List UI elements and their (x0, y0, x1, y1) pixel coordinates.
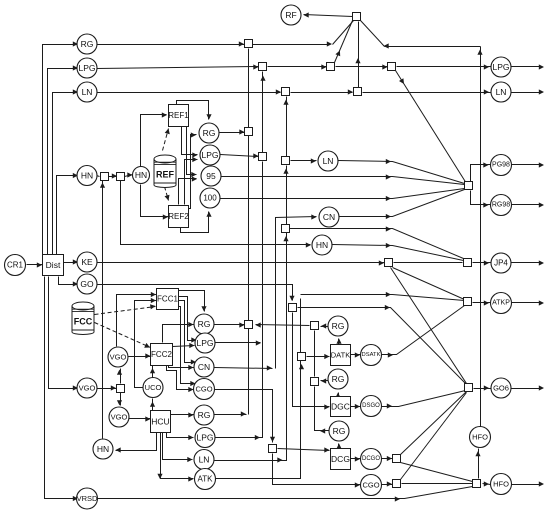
arrowhead FCC CN into collector (267, 365, 272, 370)
svg-text:ATKP: ATKP (492, 300, 510, 307)
junction reformer RG (245, 128, 253, 136)
svg-text:CN: CN (198, 362, 210, 372)
svg-text:LPG: LPG (201, 150, 218, 160)
arrowhead GO into GO junction (289, 296, 294, 301)
unit REF1 reformer mode 1 (168, 105, 189, 127)
wire FCC1 to FCC CGO (179, 307, 196, 384)
wire HN junction B to kero HN (121, 181, 311, 245)
wire DSATK to ATK blender (381, 306, 465, 355)
wire DATK RG to RG return junction (321, 326, 329, 328)
arrowhead into LPG junction 1 (253, 64, 258, 69)
node CN FCC naphtha (194, 357, 214, 377)
arrowhead into HCU LN (187, 457, 192, 462)
wire Dist to LN crude line (53, 93, 79, 255)
wire LN collector top segment (286, 97, 288, 157)
arrowhead DCG RG (336, 444, 341, 449)
svg-text:Dist: Dist (46, 260, 61, 270)
wire GO6 outlet (511, 388, 543, 390)
wire LPG collector upper vertical (262, 72, 264, 153)
node LN HCU (194, 450, 214, 470)
node LN light naphtha (77, 82, 97, 102)
svg-text:PG98: PG98 (492, 162, 510, 169)
arrowhead into LPG junction 3 (382, 64, 387, 69)
arrowhead into reformer RG junction (239, 129, 244, 134)
arrowhead DGC RG (335, 393, 340, 398)
svg-text:REF: REF (156, 170, 175, 180)
arrowhead into Dist (37, 262, 42, 267)
arrowhead into HN junction B (112, 173, 117, 178)
wire FCC2 to FCC RG left (163, 325, 194, 343)
arrowhead REF2 RG (191, 132, 196, 137)
svg-text:LN: LN (323, 156, 334, 166)
arrowhead REF2 LPG (192, 157, 197, 162)
svg-text:DCGO: DCGO (362, 456, 380, 462)
wire Dist to KE line (63, 262, 79, 264)
svg-text:LPG: LPG (78, 63, 95, 73)
wire RG1 to RG junction (97, 44, 245, 46)
svg-text:VGO: VGO (79, 384, 96, 393)
node RG HCU gas (194, 405, 214, 425)
wire HN junction B to reformer HN (125, 175, 133, 177)
wire Dist to LPG crude line (48, 69, 79, 255)
unit REF2 reformer mode 2 (168, 206, 189, 228)
svg-text:RG: RG (332, 321, 345, 331)
svg-text:HFO: HFO (472, 433, 488, 442)
svg-text:GO6: GO6 (493, 384, 509, 393)
arrowhead FCC1 LPG (191, 337, 196, 342)
wire LPG junction3 to LPG product (397, 66, 491, 68)
node DCGO desulfurized cycle oil (361, 449, 382, 470)
arrowhead on DSGO line (387, 403, 392, 408)
arrowhead into ATKP (484, 300, 489, 305)
arrowhead DATK RG (336, 339, 341, 344)
wire blender to RG98 (471, 191, 491, 205)
arrowhead REF2 95 (192, 176, 197, 181)
node PG98 premium gasoline (491, 155, 512, 176)
wire dashed FCC to FCC1 (95, 307, 156, 315)
arrowhead into GO (73, 281, 78, 286)
wire DCG to RG offgas (338, 444, 340, 449)
svg-text:HN: HN (81, 171, 93, 181)
junction LPG line 1 (259, 63, 267, 71)
wire Dist to RG crude line (43, 45, 79, 255)
junction JP4 blender (464, 259, 472, 267)
arrowhead into JP4 (484, 260, 489, 265)
junction LPG line 3 (388, 63, 396, 71)
wire reformer LPG to collector junction (221, 155, 259, 157)
wire DATK junction to DATK (307, 356, 330, 358)
junction FCC RG (245, 321, 253, 329)
node 100 reformate (200, 188, 220, 208)
arrowhead GO6 outlet (539, 385, 544, 390)
junction HN B (117, 173, 125, 181)
arrowhead FCC2 RG (188, 322, 193, 327)
node KE kerosene (77, 252, 97, 272)
wire LPG1 to LPG junction 1 (97, 67, 259, 69)
arrowhead RG98 outlet (539, 202, 544, 207)
wire DCGO junction to HFO junction (401, 463, 473, 482)
node LPG product (491, 57, 511, 77)
wire Dist to VGO line (49, 277, 79, 389)
svg-text:RG: RG (203, 128, 216, 138)
svg-text:DGC: DGC (331, 402, 350, 412)
arrowhead LPG collector into LPG junction 1 (260, 76, 265, 81)
arrowhead into KE (73, 259, 78, 264)
node LPG reformer (200, 145, 220, 165)
node VGO vacuum gas oil (77, 378, 97, 398)
wire JP4 junction to JP4 product (473, 262, 491, 264)
arrowhead HCU LPG into collector (255, 435, 260, 440)
arrowhead on LPG blend diagonal (399, 78, 404, 84)
wire HN junction A to B (109, 176, 117, 178)
arrowhead on 95 blend line (386, 174, 391, 179)
wire HCU RG to collector (215, 414, 247, 416)
arrowhead into VGO junction (111, 385, 116, 390)
svg-text:DSGO: DSGO (362, 403, 380, 409)
arrowhead into HN1 (73, 173, 78, 178)
wire 95 to gasoline blender (221, 177, 465, 185)
node GO6 gas oil product (491, 378, 511, 398)
arrowhead into KE junction (379, 260, 384, 265)
arrowhead into FCC2 (145, 353, 150, 358)
arrowhead into HCU RG (188, 412, 193, 417)
arrowhead into LN junction 1 (276, 89, 281, 94)
svg-text:DSATK: DSATK (362, 352, 381, 358)
wire FCC2 to FCC CN (169, 365, 194, 368)
svg-text:95: 95 (206, 171, 216, 181)
node VGO FCC feed (108, 347, 128, 367)
arrowhead dashed into REF1 (165, 129, 170, 135)
wire RG98 outlet (511, 204, 543, 206)
arrowhead into FCC RG junction (239, 322, 244, 327)
wire reformer RG to collector junction (219, 132, 245, 134)
arrowhead into LN product (484, 89, 489, 94)
node LPG straight-run (77, 58, 97, 78)
arrowhead on LN fuel riser (355, 58, 360, 63)
arrowhead into DSATK (355, 352, 360, 357)
wire dashed FCC to FCC2 (95, 323, 151, 348)
wire DCG RG offgas to return (321, 430, 329, 432)
svg-text:RG: RG (81, 39, 94, 49)
unit FCC2 cat cracker mode 2 (151, 344, 173, 366)
wire DCGO to DCGO junction (381, 458, 393, 460)
wire HFO junction to HFO product (483, 484, 491, 485)
svg-text:LPG: LPG (492, 62, 509, 72)
node HFO to fuel (470, 427, 491, 448)
node LN product (491, 82, 511, 102)
wire RG collector vertical (248, 49, 250, 415)
svg-text:DCG: DCG (331, 454, 350, 464)
wire LPG product outlet (511, 66, 543, 68)
wire RG junction to fan (253, 44, 331, 46)
svg-text:RG: RG (198, 319, 211, 329)
junction LN line 1 (282, 88, 290, 96)
svg-text:REF2: REF2 (168, 212, 189, 221)
wire fuel return from HFO riser (385, 46, 481, 48)
wire UCO recycle to FCC1 (135, 301, 157, 388)
arrowhead into HCU (145, 416, 150, 421)
svg-text:VGO: VGO (110, 353, 127, 362)
svg-text:RF: RF (285, 10, 296, 20)
arrowhead into RG return junction 2 (321, 378, 326, 383)
arrowhead DCG RG into return (320, 428, 325, 433)
wire HFO outlet (511, 484, 543, 486)
wire REF1 to reformer RG top (177, 101, 209, 120)
svg-text:CN: CN (323, 212, 335, 222)
wire FCC LPG to collector (215, 342, 261, 344)
arrowhead into CGO circle (355, 482, 360, 487)
arrowhead UCO into FCC2 (150, 368, 155, 373)
node HN from HCU (93, 439, 113, 459)
wire LPG junction1 to junction2 (268, 66, 327, 68)
arrowhead LN collector into LN branch junction (283, 236, 288, 241)
svg-text:FCC2: FCC2 (151, 350, 172, 359)
wire FCC CN output (215, 368, 273, 369)
unit HCU hydrocracker (151, 411, 171, 433)
arrowhead on CN blend line (386, 214, 391, 219)
svg-text:GO: GO (80, 279, 94, 289)
wire RG return vertical upper (314, 331, 316, 377)
node LN blending (318, 151, 338, 171)
node RG DCG offgas (329, 421, 349, 441)
wire DATK to DSATK (349, 354, 361, 356)
arrowhead into HCU HN (116, 447, 121, 452)
node CN cracked naphtha (319, 207, 339, 227)
node DSATK desulfurized ATK (361, 345, 382, 366)
wire HFO junction up to HFO riser circle (478, 449, 480, 479)
arrowhead into RG1 (73, 41, 78, 46)
wire REF2 to 95 lower (179, 179, 197, 205)
wire RG return vertical lower (315, 387, 321, 431)
arrowhead HCU RG into collector (241, 411, 246, 416)
arrowhead UCO into FCC1 (151, 298, 156, 303)
svg-text:RG: RG (198, 410, 211, 420)
arrowhead FCC2 LPG (189, 343, 194, 348)
wire HCU to HCU LN (163, 433, 193, 460)
wire kero HN to JP4 junction (333, 245, 464, 261)
svg-text:HN: HN (135, 170, 147, 180)
wire REF1 to 95 gasoline (187, 127, 197, 175)
wire HCU to HCU ATK (161, 433, 194, 479)
wire dashed REF to REF2 (165, 187, 169, 201)
wire PG98 outlet (511, 164, 543, 166)
wire VGO junction down to HCU VGO (120, 393, 122, 406)
wire Dist to GO line (59, 277, 79, 285)
arrowhead into HFO product (484, 481, 489, 486)
node RG reformer gas (199, 123, 219, 143)
arrowhead HCU LN into collector (277, 457, 282, 462)
svg-text:RG: RG (333, 426, 346, 436)
wire reformer HN to REF1 (141, 115, 167, 167)
wire KE junction to JP4 junction (394, 262, 463, 264)
arrowhead dashed into REF2 (165, 195, 170, 201)
node VRSD vacuum residue (77, 488, 98, 509)
arrowhead FCC1 RG (201, 306, 206, 311)
wire GO junction to GO blender (298, 308, 467, 385)
wire HFO riser vertical (480, 47, 482, 427)
wire LN junction2 to LN product (363, 92, 491, 94)
wire LN3 to gasoline blender (339, 161, 465, 184)
unit DGC gas-oil desulfurizer (331, 397, 351, 417)
arrowhead into CGO junction (387, 481, 392, 486)
arrowhead into reformer HN (127, 172, 132, 177)
wire FCC VGO to FCC2 (129, 356, 151, 358)
wire DGC RG to return junction (321, 380, 329, 382)
svg-text:CGO: CGO (195, 385, 212, 394)
junction CGO (393, 480, 401, 488)
wire LPG diagonal to fuel-gas junction (335, 21, 353, 63)
wire FCC1 to FCC LPG (179, 297, 197, 341)
svg-text:100: 100 (203, 194, 217, 203)
wire DCG junction to DCG (278, 449, 330, 451)
junction DGC RG (311, 378, 319, 386)
arrowhead ATK riser into DATK junction (299, 364, 304, 369)
svg-text:UCO: UCO (145, 383, 162, 392)
node 95 reformate (201, 166, 221, 186)
wire DCG to DCGO (349, 458, 361, 460)
arrowhead on DSATK line (388, 352, 393, 357)
junction VGO split (117, 385, 125, 393)
wire GO junction down to DGC (293, 313, 330, 407)
wire HN1 to HN junction A (97, 176, 100, 177)
node HFO product (491, 474, 512, 495)
arrowhead into RG98 (483, 202, 488, 207)
wire LN branch to JP4 junction (290, 229, 464, 259)
wire CN to gasoline blender (339, 190, 465, 217)
wire LN3 junction to LN3 (291, 160, 317, 162)
wire RG return line (256, 325, 310, 326)
wire RG diagonal to fuel-gas junction (333, 21, 354, 45)
wire KE to KE junction (97, 262, 385, 264)
arrowhead into DSGO (355, 404, 360, 409)
junction reformer LPG (259, 153, 267, 161)
arrowhead into FCC1 (151, 292, 156, 297)
junction LN to JP4 (282, 225, 290, 233)
wire LN collector middle segment (286, 166, 288, 225)
arrowhead into LN3 (311, 158, 316, 163)
node DSGO desulfurized GO (361, 396, 382, 417)
wire LPG collector lower vertical and HCU LPG line (215, 162, 263, 438)
wire FCC1 to FCC RG top (179, 291, 205, 312)
arrowhead into RG junction (239, 41, 244, 46)
arrowhead LN collector into LN junction 1 (283, 100, 288, 105)
arrowhead into REF1 (162, 112, 167, 117)
arrowhead into LPG junction 2 (321, 64, 326, 69)
arrowhead into LPG1 (73, 65, 78, 70)
unit REF reformer capacity (154, 155, 176, 188)
node LPG FCC (195, 333, 215, 353)
node CR1 crude input (5, 255, 26, 276)
node CGO blending (361, 475, 382, 496)
svg-text:LPG: LPG (196, 433, 213, 443)
arrowhead on HN JP4 line (386, 243, 391, 248)
junction DCGO (393, 455, 401, 463)
arrowhead into LN junction 2 (348, 89, 353, 94)
wire DATK to RG offgas (338, 339, 340, 345)
svg-text:LN: LN (496, 87, 507, 97)
arrowhead REF2 100 (206, 212, 211, 217)
svg-text:LN: LN (199, 455, 210, 465)
wire LPG diagonal to gasoline blender (396, 71, 467, 184)
svg-text:LPG: LPG (196, 338, 213, 348)
wire GO to GO junction (97, 285, 293, 301)
wire UCO to FCC2 (152, 365, 154, 378)
arrowhead into HCU VGO (117, 400, 122, 405)
arrowhead PG98 outlet (539, 162, 544, 167)
node CGO cycle gas oil (194, 379, 215, 400)
wire HCU HN riser (102, 181, 104, 439)
arrowhead into GO6 (484, 385, 489, 390)
node GO gas oil (77, 274, 97, 294)
svg-text:HN: HN (316, 240, 328, 250)
wire FCC1 to FCC CN (179, 301, 197, 363)
wire FCC VGO to FCC1 (117, 295, 157, 347)
svg-text:HN: HN (97, 444, 109, 454)
wire ATKP outlet (511, 302, 543, 304)
wire dashed REF to REF1 (163, 129, 169, 151)
node RF refinery fuel (281, 5, 301, 25)
arrowhead into RF (304, 12, 309, 17)
arrowhead into LN1 (73, 89, 78, 94)
wire HCU to HCU LPG (167, 433, 194, 438)
junction ATKP blender (464, 298, 472, 306)
arrowhead RG line to fuel fan (327, 41, 332, 46)
svg-text:RG98: RG98 (492, 202, 510, 209)
wire REF2 to 100 gasoline (181, 212, 209, 233)
arrowhead into DGC (324, 404, 329, 409)
wire LPG junction2 to junction3 (336, 66, 388, 68)
arrowhead FCC1 CGO (190, 381, 195, 386)
node ATK aviation kerosene (195, 469, 216, 490)
wire DCG junction to CGO product (273, 454, 361, 485)
svg-text:LN: LN (82, 87, 93, 97)
arrowhead FCC LPG into collector (256, 340, 261, 345)
arrowhead into UCO (150, 402, 155, 407)
svg-text:RG: RG (332, 374, 345, 384)
arrowhead HN riser into junction A (100, 183, 105, 188)
wire LN junction2 up to fuel-gas junction (358, 22, 360, 88)
arrowhead into LPG product (484, 64, 489, 69)
wire ATK blender to ATKP (473, 302, 491, 304)
svg-text:JP4: JP4 (494, 259, 508, 268)
wire CGO circle to CGO junction (381, 484, 393, 486)
node UCO unconverted oil (143, 378, 163, 398)
wire KE junction to GO blender (391, 268, 467, 384)
wire Dist to HN crude line (57, 176, 79, 255)
arrowhead into PG98 (483, 162, 488, 167)
arrowhead LN outlet (539, 89, 544, 94)
wire CR1 to Dist (27, 264, 43, 266)
node JP4 jet fuel (491, 253, 511, 273)
arrowhead FCC1 CN (191, 359, 196, 364)
junction KE line (385, 259, 393, 267)
arrowhead on LN3 blend line (386, 159, 391, 164)
arrowhead REF1 95 (191, 172, 196, 177)
arrowhead into CN (311, 214, 316, 219)
arrowhead into reformer LPG junction (253, 153, 258, 158)
junction DATK RG (311, 322, 319, 330)
arrowhead on ATK blend line (386, 292, 391, 297)
node RG straight-run gas (77, 34, 97, 54)
wire GO blender to GO6 (474, 388, 491, 390)
wire CGO junction to HFO junction (402, 483, 473, 485)
arrowhead FCC2 CN (188, 365, 193, 370)
arrowhead CGO into DCG junction (270, 437, 275, 442)
wire HCU to HCU RG (171, 414, 194, 416)
wire CN collector to CN circle (276, 217, 317, 369)
svg-text:CR1: CR1 (7, 261, 24, 270)
arrowhead into HCU LPG (188, 435, 193, 440)
